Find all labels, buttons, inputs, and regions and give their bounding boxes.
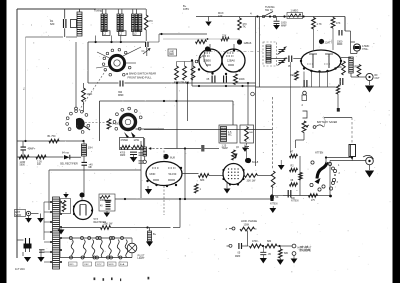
svg-text:MMF: MMF xyxy=(281,24,287,27)
svg-text:4.7K: 4.7K xyxy=(317,23,322,26)
svg-text:◉ BAND SWITCH REAR: ◉ BAND SWITCH REAR xyxy=(126,72,156,76)
svg-text:50-150: 50-150 xyxy=(169,173,177,176)
svg-text:84 ma: 84 ma xyxy=(62,152,69,155)
svg-text:MMF: MMF xyxy=(118,94,124,97)
svg-text:680: 680 xyxy=(284,252,289,255)
svg-text:MF: MF xyxy=(89,166,93,169)
svg-text:ATTEN: ATTEN xyxy=(291,200,299,203)
svg-text:20K 1W: 20K 1W xyxy=(104,223,114,226)
svg-text:5K: 5K xyxy=(276,196,279,199)
svg-text:MMF: MMF xyxy=(235,256,241,258)
svg-text:100K: 100K xyxy=(244,223,250,226)
svg-text:117V: 117V xyxy=(97,264,102,266)
svg-text:47K: 47K xyxy=(336,22,341,25)
svg-text:SEL RECTIFIER: SEL RECTIFIER xyxy=(60,163,78,166)
svg-text:OUT: OUT xyxy=(375,77,381,80)
svg-text:A 100K: A 100K xyxy=(113,123,121,126)
svg-text:117 VAC: 117 VAC xyxy=(15,267,25,271)
svg-text:22K: 22K xyxy=(222,35,227,38)
svg-text:BATTERY SAVER: BATTERY SAVER xyxy=(317,121,337,124)
svg-text:MOD: MOD xyxy=(109,264,115,266)
svg-text:10H: 10H xyxy=(88,147,93,150)
svg-text:12AT7: 12AT7 xyxy=(325,41,333,45)
svg-text:B+A: B+A xyxy=(120,263,125,266)
svg-text:MC: MC xyxy=(228,134,232,137)
svg-text:4700: 4700 xyxy=(120,152,126,154)
svg-text:1/2W: 1/2W xyxy=(134,140,140,142)
svg-text:MOD: MOD xyxy=(15,214,21,217)
svg-text:OSC: OSC xyxy=(84,264,89,266)
svg-text:RED: RED xyxy=(290,74,295,77)
svg-text:100K: 100K xyxy=(239,78,245,81)
svg-text:MMF: MMF xyxy=(120,155,126,157)
svg-text:...: ... xyxy=(151,21,154,25)
svg-text:MMF: MMF xyxy=(337,43,343,46)
svg-text:TRAP: TRAP xyxy=(222,147,229,150)
svg-text:680: 680 xyxy=(50,22,55,26)
svg-text:105V: 105V xyxy=(183,7,189,11)
svg-text:4700: 4700 xyxy=(252,240,258,243)
svg-text:100K: 100K xyxy=(337,67,343,69)
svg-text:ode, left: ode, left xyxy=(300,246,309,249)
svg-text:50K: 50K xyxy=(249,132,253,134)
svg-text:TK: TK xyxy=(243,26,247,29)
svg-text:100K: 100K xyxy=(87,93,93,96)
svg-text:LINE: LINE xyxy=(169,51,175,53)
svg-text:68K: 68K xyxy=(200,179,205,182)
svg-text:FRONT BAND PULL: FRONT BAND PULL xyxy=(128,76,153,80)
svg-text:1 MEG: 1 MEG xyxy=(291,10,299,13)
svg-text:SW 7C: SW 7C xyxy=(265,9,273,12)
svg-text:ORD: ORD xyxy=(169,54,174,56)
svg-text:12BA6: 12BA6 xyxy=(227,59,235,63)
svg-text:B+: B+ xyxy=(153,233,157,236)
svg-text:XTAL: XTAL xyxy=(362,48,369,51)
svg-text:470MΩ: 470MΩ xyxy=(121,140,129,142)
svg-text:ATTEN: ATTEN xyxy=(270,202,278,205)
svg-text:40MF+: 40MF+ xyxy=(28,148,36,151)
svg-text:6U8: 6U8 xyxy=(170,156,175,160)
svg-text:LIGHT: LIGHT xyxy=(138,257,146,260)
svg-text:5600: 5600 xyxy=(20,164,26,167)
svg-text:B1 750: B1 750 xyxy=(48,135,57,138)
svg-text:MOD: MOD xyxy=(150,173,156,176)
svg-text:12BA6: 12BA6 xyxy=(244,41,252,45)
svg-text:680: 680 xyxy=(267,240,272,243)
svg-text:TS 100TS: TS 100TS xyxy=(300,250,311,252)
svg-text:40MF: 40MF xyxy=(100,200,106,202)
svg-text:33K 1W: 33K 1W xyxy=(247,180,257,183)
svg-text:ATTEN: ATTEN xyxy=(315,151,323,155)
